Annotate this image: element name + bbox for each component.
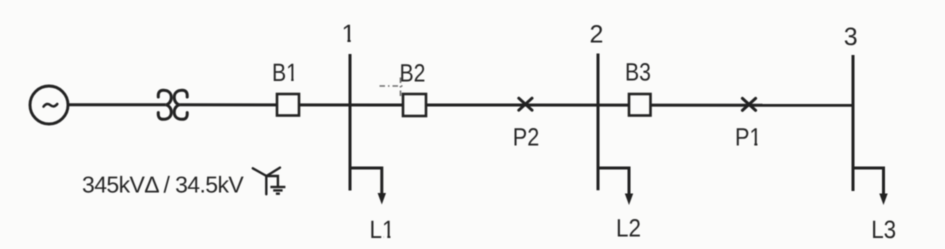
wye grounded symbol xyxy=(253,168,280,195)
wire main feeder left segment xyxy=(68,103,166,106)
bus 2 xyxy=(597,54,600,191)
svg-text:L1: L1 xyxy=(370,216,395,244)
breaker B1 xyxy=(277,94,299,116)
glyph serif masks (background patches) xyxy=(287,39,761,238)
svg-text:L3: L3 xyxy=(871,216,896,244)
bus 3 xyxy=(852,55,855,191)
wire main feeder right segment xyxy=(180,103,853,107)
load L2 feeder xyxy=(598,168,629,197)
load L3 feeder xyxy=(853,168,884,197)
breaker B2 xyxy=(403,94,426,116)
load L1 arrowhead xyxy=(378,193,386,205)
svg-text:B1: B1 xyxy=(272,59,298,87)
svg-text:3: 3 xyxy=(844,23,858,51)
ground symbol xyxy=(270,187,285,194)
load L2 arrowhead xyxy=(625,194,633,206)
bus 1 xyxy=(349,54,352,191)
load L1 feeder xyxy=(350,168,382,196)
svg-text:B3: B3 xyxy=(625,59,651,87)
fault point P2 xyxy=(519,98,532,110)
svg-text:P1: P1 xyxy=(735,123,762,151)
crosshair artifact near B2 xyxy=(380,78,405,99)
svg-text:B2: B2 xyxy=(400,60,426,88)
svg-text:P2: P2 xyxy=(513,123,540,151)
breaker B3 xyxy=(629,94,651,116)
transformer T1 primary winding xyxy=(158,90,171,119)
load L3 arrowhead xyxy=(879,194,887,206)
transformer T1 secondary winding xyxy=(174,90,187,119)
svg-text:L2: L2 xyxy=(616,214,641,242)
fault point P1 xyxy=(742,98,755,110)
svg-text:345kVΔ / 34.5kV: 345kVΔ / 34.5kV xyxy=(82,172,244,198)
ac source G1 xyxy=(30,86,68,124)
svg-text:2: 2 xyxy=(590,21,604,49)
svg-text:1: 1 xyxy=(342,20,356,48)
